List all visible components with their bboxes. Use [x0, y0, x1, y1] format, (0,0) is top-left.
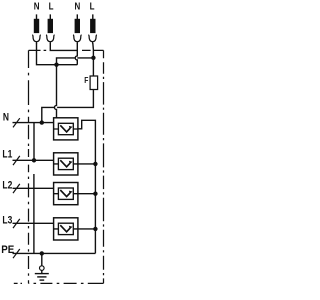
svg-text:F: F — [84, 75, 88, 85]
svg-text:L: L — [90, 1, 95, 12]
svg-text:N: N — [34, 1, 40, 12]
svg-text:N: N — [3, 112, 9, 124]
svg-text:N: N — [75, 1, 81, 12]
svg-text:L2: L2 — [2, 180, 12, 192]
svg-text:L3: L3 — [2, 215, 12, 227]
svg-text:L: L — [49, 1, 54, 12]
svg-text:PE: PE — [1, 245, 14, 256]
svg-text:L1: L1 — [2, 148, 12, 160]
